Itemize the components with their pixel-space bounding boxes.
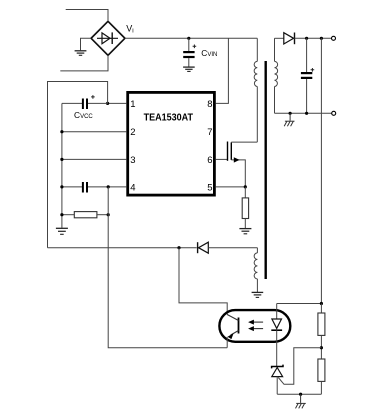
- resistor horizontal on left rail: [62, 212, 108, 218]
- wire pin 3: [62, 158, 126, 160]
- wire bridge left to ground: [81, 38, 92, 50]
- ground earth symbol at bridge: [75, 51, 87, 56]
- transistor Q1 MOSFET: [228, 142, 258, 187]
- capacitor CVIN: [183, 38, 196, 66]
- wire pin4 column down to optocoupler emitter: [108, 187, 227, 348]
- wire AC input bottom stub: [60, 55, 108, 71]
- junction divider mid node: [320, 346, 323, 349]
- optocoupler LED: [271, 304, 282, 367]
- wire secondary bottom rail: [275, 112, 332, 114]
- wire AC input top stub: [66, 10, 108, 22]
- transformer primary winding: [254, 38, 257, 142]
- svg-text:4: 4: [130, 182, 135, 193]
- junction pin5 node: [244, 185, 247, 188]
- junction output cap top: [305, 37, 308, 40]
- wire diode to terminal: [295, 37, 332, 39]
- wire pin 2: [62, 131, 126, 133]
- wire pin 6 to gate: [216, 158, 227, 160]
- junction CVIN tap: [187, 37, 190, 40]
- bridge rectifier: [91, 21, 125, 55]
- wire collector riser to optocoupler: [179, 248, 227, 315]
- junction R1 top: [320, 302, 323, 305]
- wire secondary top rail: [275, 37, 284, 39]
- junction rail pin3: [60, 158, 63, 161]
- terminal circle output plus: [332, 36, 336, 40]
- resistor R lower divider: [318, 359, 325, 394]
- wire top box from pin1 node up-left to left rail down: [48, 82, 108, 248]
- junction bottom gnd node: [299, 393, 302, 396]
- ground earth symbol aux winding: [252, 292, 264, 297]
- diode zener: [272, 365, 283, 395]
- ground chassis symbol bottom: [296, 394, 306, 408]
- wire pin 5: [216, 186, 246, 188]
- svg-text:6: 6: [207, 155, 212, 166]
- wire pin 8 to Vi rail: [216, 38, 229, 103]
- optocoupler light arrows: [248, 320, 263, 332]
- wire LED anode to feedback node: [277, 303, 322, 305]
- wire mid node to zener branch: [278, 348, 321, 385]
- diode output rectifier: [284, 33, 295, 45]
- junction rail pin2: [60, 130, 63, 133]
- wire aux rail y=247.7: [48, 247, 197, 249]
- svg-text:3: 3: [130, 155, 135, 166]
- resistor sense: [242, 187, 248, 228]
- wire feedback line down right side: [320, 38, 322, 303]
- transformer core: [265, 61, 267, 279]
- svg-text:2: 2: [130, 127, 135, 138]
- resistor R upper divider: [318, 304, 325, 360]
- ground chassis symbol secondary: [284, 113, 294, 126]
- svg-text:8: 8: [207, 99, 212, 110]
- junction aux diode node: [177, 246, 180, 249]
- junction resistor right: [107, 213, 110, 216]
- wire left rail vertical: [61, 103, 63, 227]
- capacitor CVCC: [62, 95, 108, 109]
- junction feedback tap: [320, 37, 323, 40]
- svg-text:5: 5: [207, 182, 212, 193]
- svg-text:TEA1530AT: TEA1530AT: [144, 112, 194, 123]
- junction rail pin4: [60, 185, 63, 188]
- ground earth symbol below CVIN: [183, 67, 195, 71]
- capacitor output electrolytic: [301, 38, 314, 113]
- wire diode to aux winding: [208, 247, 257, 249]
- junction pin4 column top: [107, 185, 110, 188]
- ground earth symbol below sense resistor: [239, 229, 251, 234]
- svg-text:1: 1: [130, 99, 135, 110]
- junction chassis gnd tap: [289, 112, 292, 115]
- op-amp U1 TEA1530AT body: [128, 92, 215, 195]
- junction rail resistor: [60, 213, 63, 216]
- transformer secondary winding: [275, 38, 278, 113]
- svg-text:7: 7: [207, 127, 212, 138]
- ground earth symbol left rail: [56, 228, 68, 234]
- wire pin 1: [108, 102, 127, 104]
- capacitor on pin 4 row: [62, 182, 126, 193]
- wire bottom ground rail: [277, 393, 321, 395]
- terminal circle output minus: [332, 111, 336, 115]
- diode aux (pointing left): [198, 242, 209, 253]
- optocoupler package: [219, 310, 290, 342]
- wire Vi rail: [125, 37, 257, 39]
- junction output cap bottom: [305, 112, 308, 115]
- transformer auxiliary winding: [254, 248, 257, 292]
- junction pin 1 node: [106, 102, 109, 105]
- optocoupler phototransistor: [227, 315, 238, 348]
